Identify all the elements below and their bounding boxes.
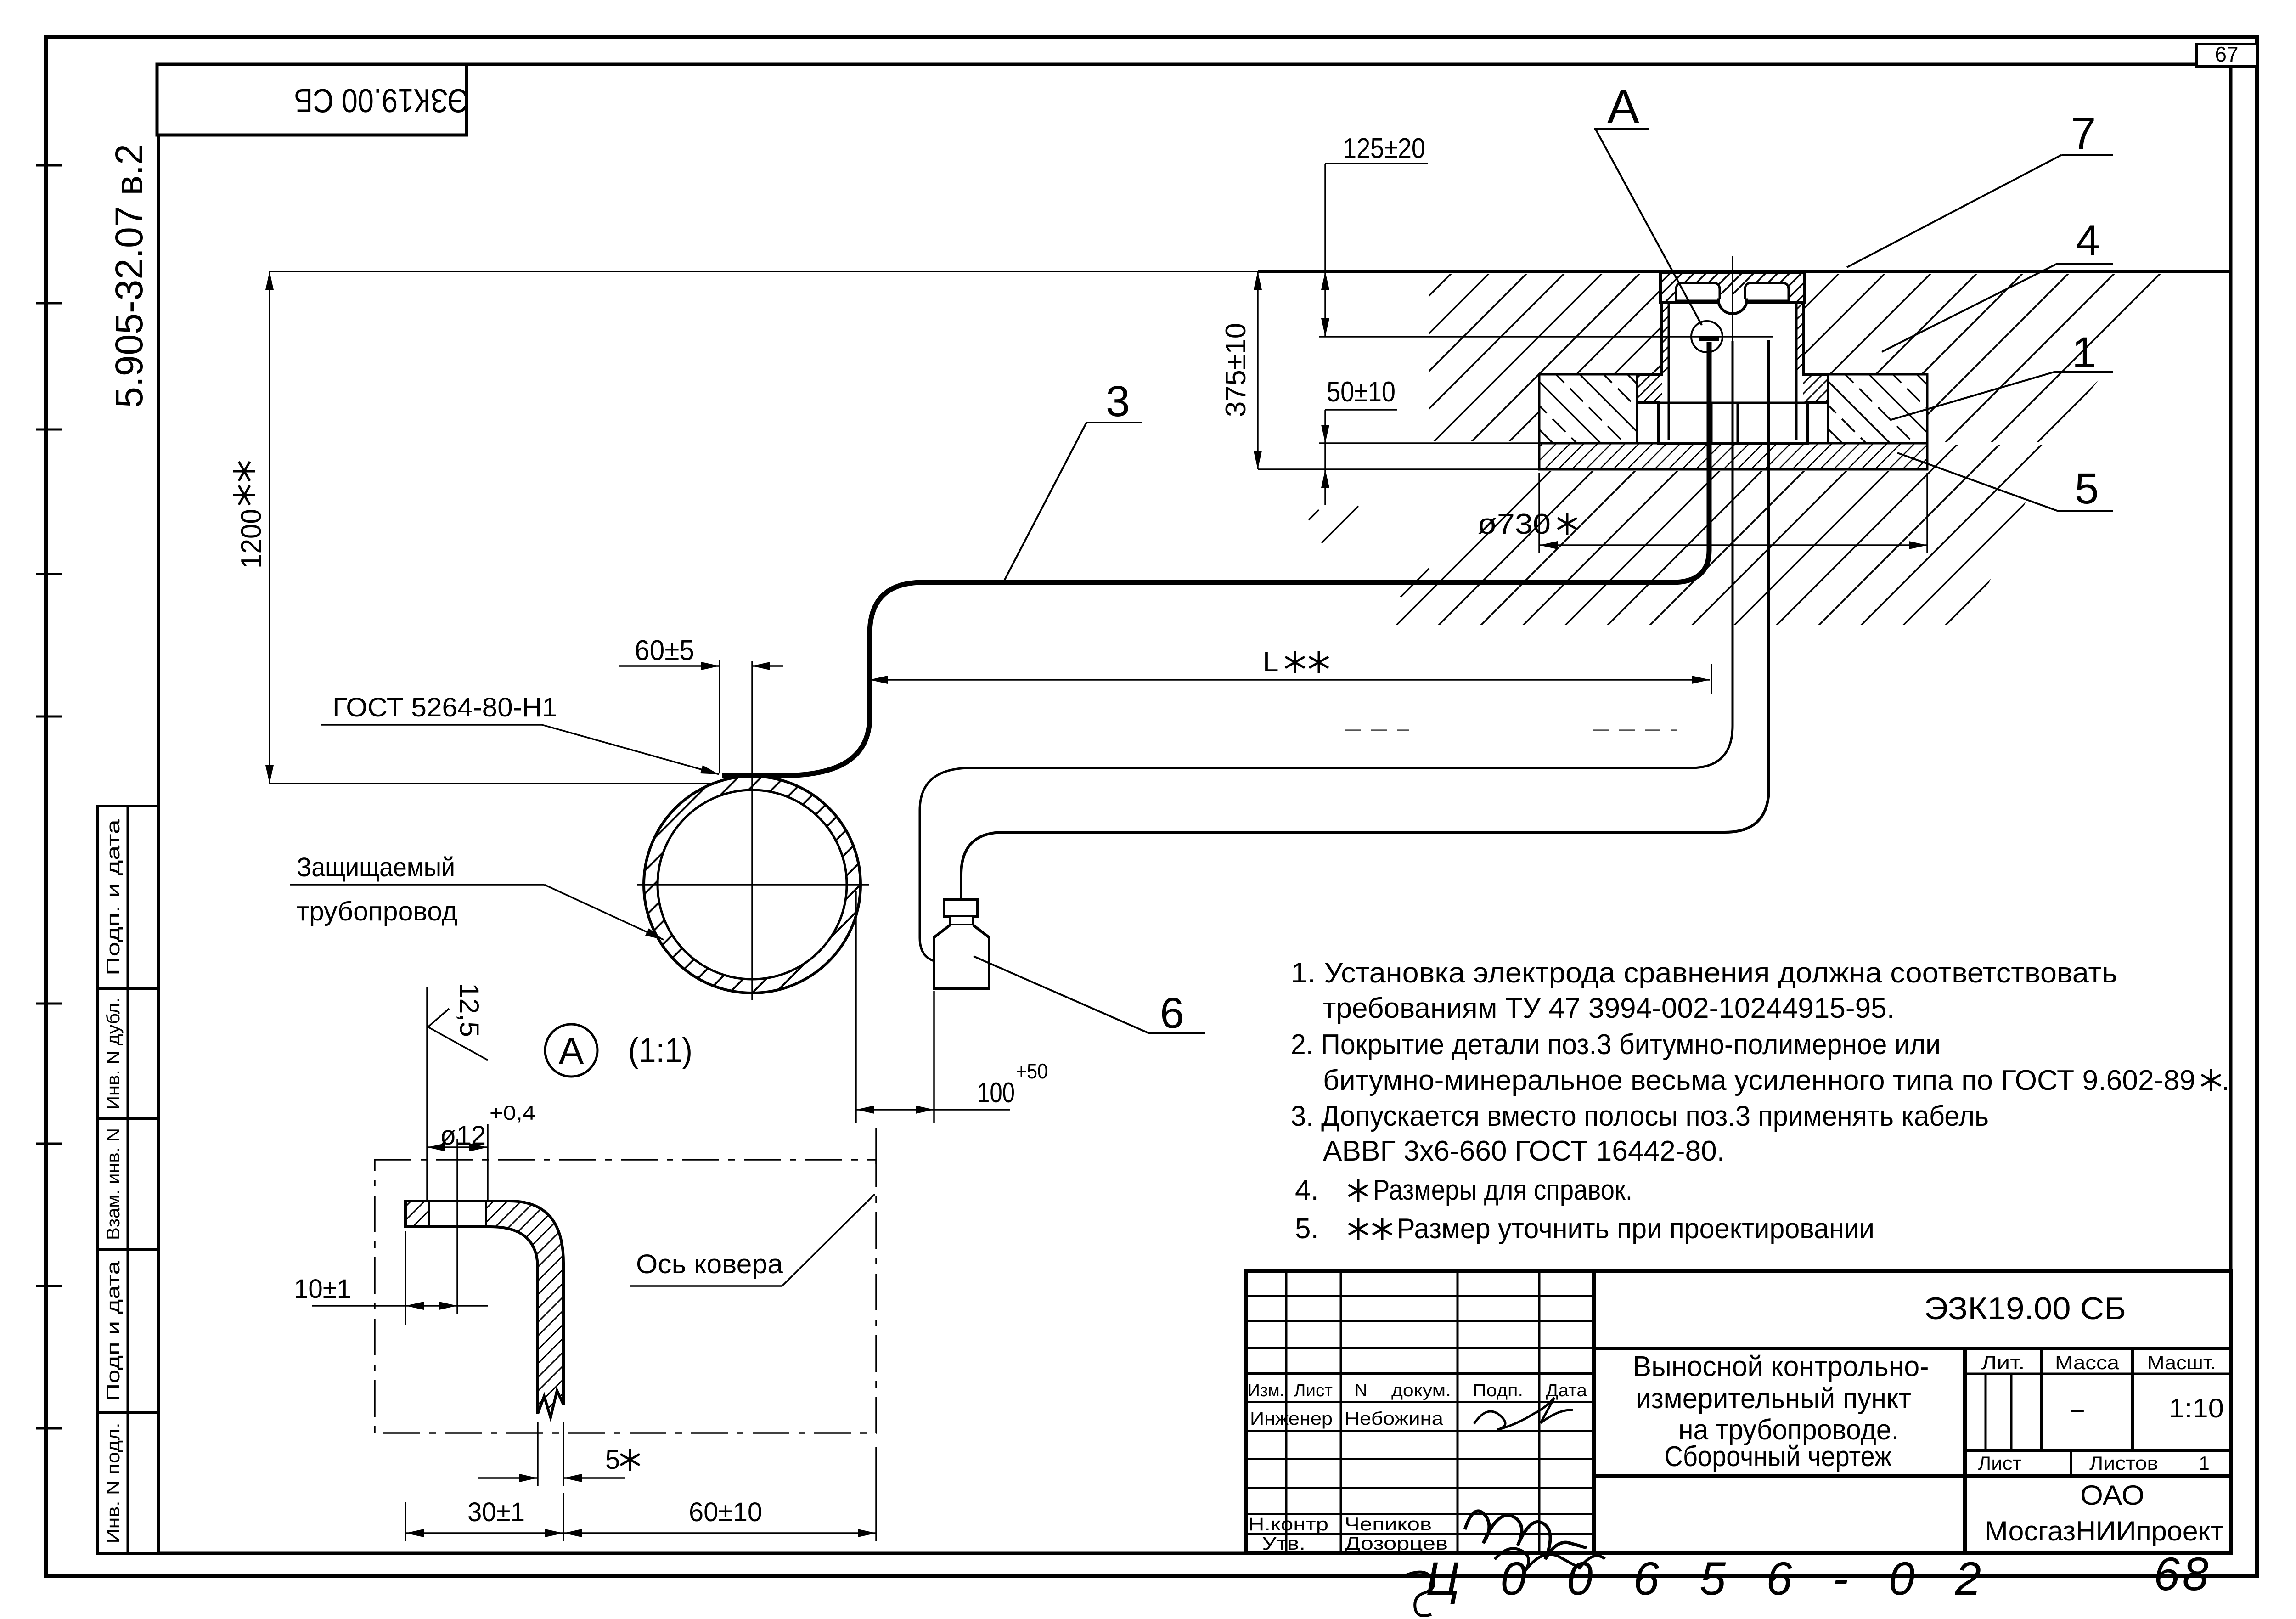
faint scan centreline artifacts	[1345, 729, 1409, 731]
svg-text:ЭЗК19.00 СБ: ЭЗК19.00 СБ	[294, 82, 468, 118]
svg-text:68: 68	[2154, 1548, 2211, 1600]
svg-text:требованиям ТУ 47 3994-002-102: требованиям ТУ 47 3994-002-10244915-95.	[1323, 993, 1895, 1024]
svg-text:Лист: Лист	[1978, 1452, 2022, 1474]
cover body (ковер) outline	[1637, 273, 1828, 443]
cover inner cavity walls	[1668, 302, 1670, 440]
svg-text:1: 1	[2199, 1452, 2209, 1474]
strip hole (erase)	[429, 1199, 486, 1229]
svg-text:+0,4: +0,4	[490, 1102, 535, 1124]
fold tick marks left margin	[36, 164, 62, 167]
svg-text:+50: +50	[1016, 1059, 1048, 1083]
svg-text:5: 5	[605, 1445, 620, 1475]
detail view marker A (1:1)	[545, 1024, 597, 1077]
title block grid	[1246, 1271, 2231, 1553]
svg-text:Подп и дата: Подп и дата	[103, 1260, 124, 1401]
svg-text:5.: 5.	[1295, 1213, 1319, 1245]
cover axis dashed box	[375, 1160, 876, 1433]
electrode hole circle	[1691, 321, 1722, 352]
svg-text:Лист: Лист	[1294, 1381, 1333, 1400]
svg-text:3: 3	[1106, 377, 1130, 426]
svg-text:Защищаемый: Защищаемый	[297, 852, 455, 882]
svg-text:6: 6	[1160, 989, 1184, 1038]
svg-text:5.905-32.07 в.2: 5.905-32.07 в.2	[107, 144, 151, 408]
svg-text:2. Покрытие детали поз.3 битум: 2. Покрытие детали поз.3 битумно-полимер…	[1291, 1029, 1941, 1061]
svg-text:30±1: 30±1	[467, 1497, 525, 1527]
ground surface line	[1258, 270, 2231, 273]
svg-text:Ц00656-02: Ц00656-02	[1426, 1552, 2021, 1605]
dim 1200**	[236, 509, 267, 569]
svg-text:.: .	[2222, 1065, 2229, 1096]
svg-text:5: 5	[2075, 464, 2099, 513]
svg-text:60±10: 60±10	[689, 1497, 762, 1527]
stamp box with inverted doc number ЭЗК19.00 СБ	[157, 64, 467, 135]
svg-text:–: –	[2071, 1396, 2084, 1422]
svg-text:ГОСТ 5264-80-Н1: ГОСТ 5264-80-Н1	[332, 693, 557, 722]
chamfer dim 12,5	[454, 983, 484, 1037]
steel strip (item 3)	[722, 342, 1709, 776]
protected pipeline (truba)	[644, 776, 861, 993]
svg-text:1200: 1200	[236, 509, 267, 569]
svg-text:Размеры для справок.: Размеры для справок.	[1373, 1174, 1632, 1206]
left margin attribute boxes	[98, 806, 158, 988]
left margin doc designation 5.905-32.07 в.2	[107, 144, 151, 408]
concrete slab ring (item 1), left block	[1539, 374, 1637, 443]
cover axis centre line	[1732, 256, 1733, 342]
svg-text:Инженер: Инженер	[1250, 1409, 1333, 1429]
svg-text:Небожина: Небожина	[1345, 1409, 1444, 1429]
electrode centre line	[1319, 336, 1773, 338]
svg-text:Дозорцев: Дозорцев	[1345, 1534, 1448, 1554]
signatures	[1474, 1398, 1573, 1430]
svg-text:битумно-минеральное весьма уси: битумно-минеральное весьма усиленного ти…	[1323, 1065, 2195, 1096]
svg-text:Листов: Листов	[2089, 1452, 2158, 1474]
lid central notch	[1718, 294, 1747, 314]
svg-text:375±10: 375±10	[1220, 323, 1252, 417]
svg-text:Подп.: Подп.	[1473, 1381, 1523, 1400]
svg-text:докум.: докум.	[1391, 1381, 1451, 1400]
reference electrode (item 6)	[944, 899, 978, 917]
svg-text:Чепиков: Чепиков	[1345, 1514, 1432, 1534]
svg-text:Инв. N дубл.: Инв. N дубл.	[103, 998, 124, 1110]
svg-text:12,5: 12,5	[454, 983, 484, 1037]
svg-text:N: N	[1355, 1381, 1367, 1400]
svg-text:А: А	[1607, 80, 1639, 134]
svg-text:100: 100	[977, 1077, 1015, 1109]
strip hole axis	[456, 1139, 458, 1314]
svg-text:Утв.: Утв.	[1262, 1534, 1306, 1554]
svg-text:4.: 4.	[1295, 1174, 1319, 1206]
cover lid (item 7)	[1660, 273, 1804, 302]
svg-text:трубопровод: трубопровод	[297, 897, 457, 926]
svg-text:50±10: 50±10	[1327, 376, 1396, 408]
svg-text:1. Установка электрода сравнен: 1. Установка электрода сравнения должна …	[1291, 957, 2117, 989]
svg-text:измерительный пункт: измерительный пункт	[1636, 1383, 1911, 1415]
svg-text:Изм.: Изм.	[1248, 1381, 1284, 1400]
electrode cable (upper)	[1699, 337, 1719, 341]
svg-text:125±20: 125±20	[1343, 133, 1425, 164]
svg-text:3. Допускается вместо полосы п: 3. Допускается вместо полосы поз.3 приме…	[1291, 1100, 1989, 1132]
svg-text:7: 7	[2071, 108, 2096, 158]
sheet number box 67	[2196, 44, 2257, 66]
svg-text:МосгазНИИпроект: МосгазНИИпроект	[1985, 1516, 2223, 1546]
svg-text:Сборочный чертеж: Сборочный чертеж	[1665, 1441, 1892, 1472]
svg-text:АВВГ 3х6-660 ГОСТ 16442-80.: АВВГ 3х6-660 ГОСТ 16442-80.	[1323, 1135, 1725, 1167]
svg-text:Выносной контрольно-: Выносной контрольно-	[1633, 1351, 1929, 1382]
svg-text:Взам. инв. N: Взам. инв. N	[103, 1128, 124, 1240]
svg-text:67: 67	[2215, 42, 2238, 66]
stray soil hatch strokes	[1309, 510, 1319, 520]
ground level extension line (left, for 1200 dim)	[270, 271, 1258, 272]
lid recess windows	[1676, 283, 1720, 301]
svg-text:L: L	[1263, 646, 1278, 678]
svg-text:Размер уточнить при проектиров: Размер уточнить при проектировании	[1397, 1213, 1874, 1245]
bent strip section (detail)	[405, 1201, 563, 1417]
svg-text:Ось ковера: Ось ковера	[636, 1249, 783, 1279]
svg-text:Н.контр: Н.контр	[1248, 1514, 1328, 1534]
electrode cable (lower)	[961, 340, 1769, 898]
svg-text:Подп. и дата: Подп. и дата	[103, 819, 124, 976]
concrete slab ring (item 1), right block	[1828, 374, 1927, 443]
svg-text:Лит.: Лит.	[1981, 1352, 2025, 1373]
svg-text:10±1: 10±1	[294, 1274, 351, 1304]
svg-text:Инв. N подл.: Инв. N подл.	[103, 1423, 124, 1544]
pipe centre lines	[637, 884, 869, 886]
svg-text:Масса: Масса	[2055, 1352, 2120, 1373]
svg-text:Масшт.: Масшт.	[2147, 1352, 2216, 1373]
svg-text:(1:1): (1:1)	[628, 1031, 692, 1069]
svg-text:4: 4	[2076, 216, 2100, 265]
svg-text:ЭЗК19.00 СБ: ЭЗК19.00 СБ	[1924, 1291, 2126, 1326]
svg-text:60±5: 60±5	[635, 635, 694, 666]
dim 375±10	[1220, 323, 1252, 417]
svg-text:1: 1	[2072, 328, 2096, 377]
svg-text:1:10: 1:10	[2169, 1393, 2224, 1423]
svg-text:ОАО: ОАО	[2080, 1480, 2144, 1511]
svg-text:Дата: Дата	[1546, 1381, 1587, 1400]
concrete base slab (item 5)	[1539, 443, 1927, 469]
svg-text:А: А	[559, 1030, 584, 1072]
